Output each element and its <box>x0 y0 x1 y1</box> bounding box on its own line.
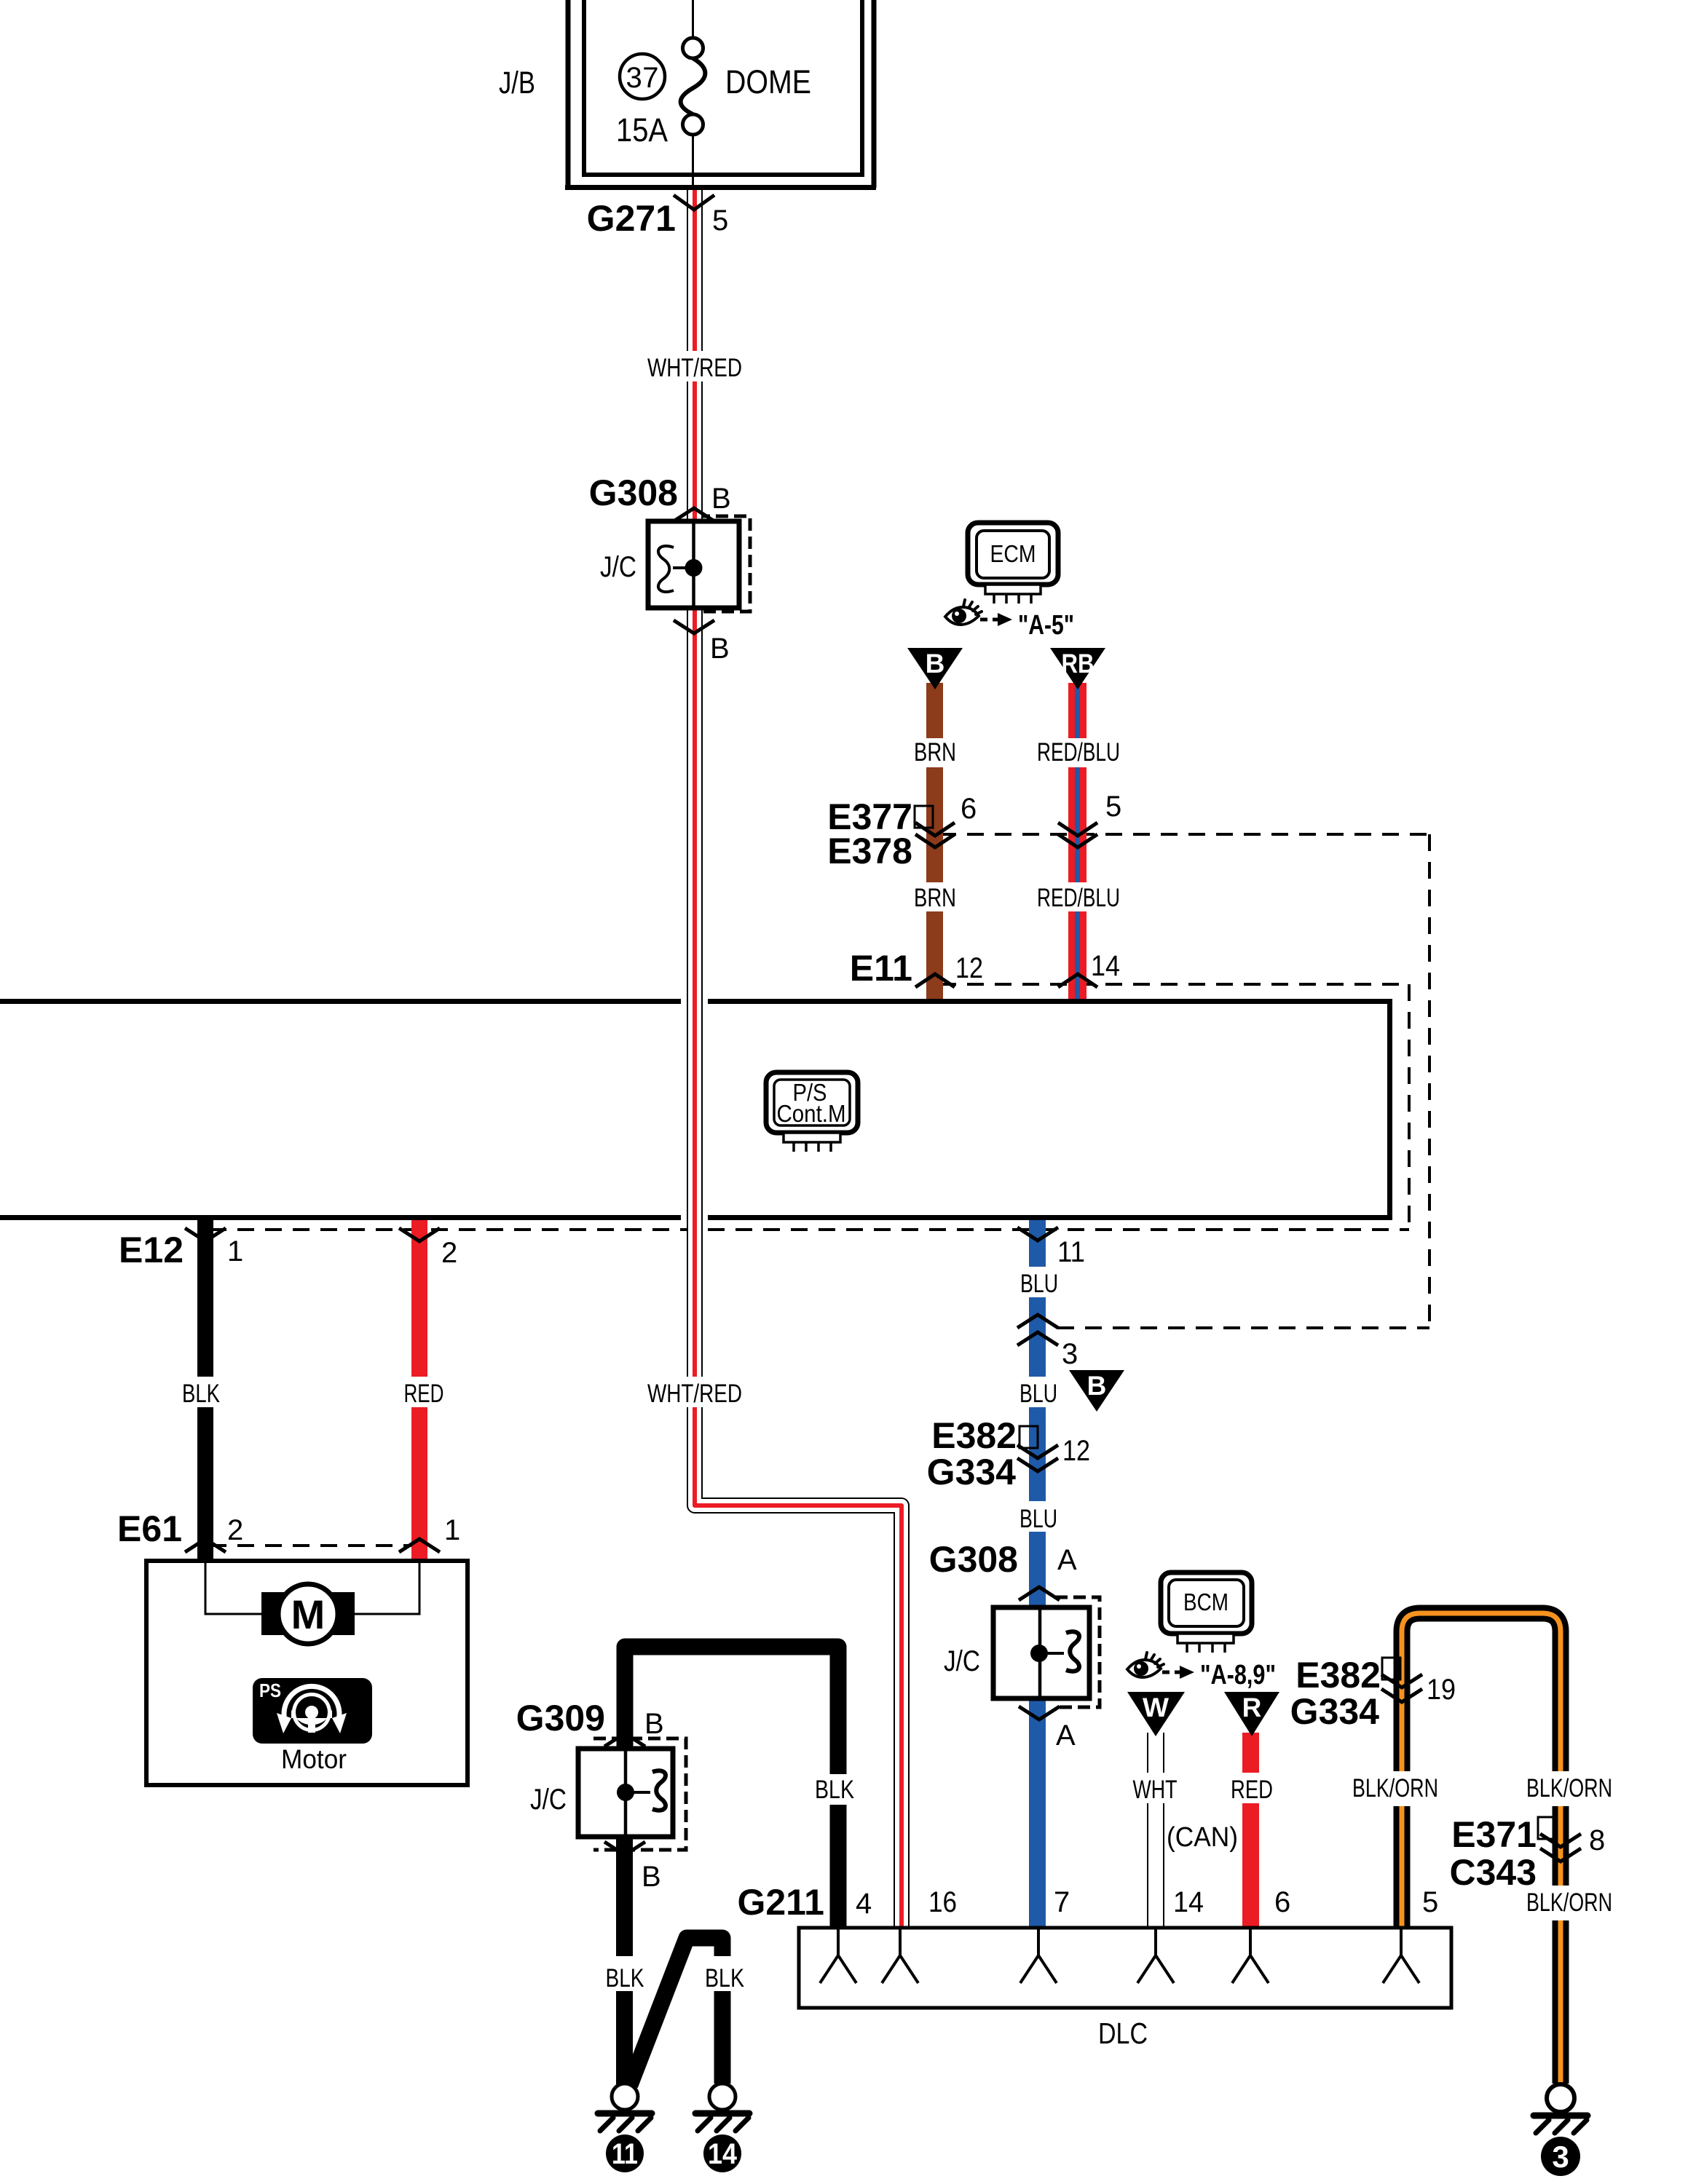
connector E377/E378 pin 5 double chevron <box>1058 823 1097 847</box>
svg-text:14: 14 <box>1091 950 1120 982</box>
svg-text:3: 3 <box>1062 1338 1078 1370</box>
svg-text:J/C: J/C <box>944 1645 980 1677</box>
svg-text:WHT/RED: WHT/RED <box>647 1380 742 1408</box>
svg-text:G334: G334 <box>1290 1691 1380 1732</box>
svg-text:2: 2 <box>441 1237 457 1269</box>
svg-text:16: 16 <box>928 1886 957 1918</box>
svg-text:E11: E11 <box>850 948 912 989</box>
connector G309 pin B chevron (top) <box>604 1733 645 1746</box>
svg-text:G308: G308 <box>589 472 678 513</box>
J/C G308 (B) <box>600 521 739 608</box>
svg-text:11: 11 <box>612 2138 638 2170</box>
svg-text:B: B <box>710 633 730 665</box>
svg-text:"A-5": "A-5" <box>1018 610 1074 641</box>
svg-text:7: 7 <box>1054 1886 1070 1918</box>
svg-text:G308: G308 <box>929 1539 1018 1580</box>
svg-text:14: 14 <box>708 2138 738 2170</box>
J/B outer box <box>565 0 876 188</box>
svg-text:12: 12 <box>955 952 983 984</box>
wire BLK/ORN (DLC pin5 to ground 3, inverted U) <box>1402 1613 1561 2084</box>
svg-text:G309: G309 <box>516 1698 605 1738</box>
svg-text:BLU: BLU <box>1019 1380 1057 1408</box>
ground 11 <box>598 2084 652 2172</box>
svg-text:2: 2 <box>227 1514 243 1546</box>
dashed line E382/G334-3 <box>1057 1326 1429 1329</box>
dashed box of J/C G308-A <box>1055 1597 1100 1707</box>
svg-text:B: B <box>644 1708 664 1740</box>
connector E12 pin 1 chevron <box>185 1228 226 1241</box>
svg-text:G211: G211 <box>737 1882 824 1923</box>
svg-text:RED: RED <box>1231 1776 1273 1804</box>
svg-text:RED/BLU: RED/BLU <box>1037 738 1120 767</box>
svg-text:12: 12 <box>1062 1435 1090 1467</box>
page-ref box E382 (BLU) <box>1019 1426 1038 1448</box>
svg-text:8: 8 <box>1589 1824 1605 1856</box>
svg-text:A: A <box>1057 1544 1077 1576</box>
wire RED (R triangle to DLC pin6) <box>1242 1733 1259 1928</box>
svg-text:BLK/ORN: BLK/ORN <box>1526 1888 1612 1917</box>
svg-text:19: 19 <box>1427 1674 1456 1706</box>
triangle W (WHT) <box>1127 1692 1185 1736</box>
svg-text:G271: G271 <box>587 198 676 239</box>
dashed box of J/C G309 <box>593 1738 686 1850</box>
PS steering icon <box>253 1678 372 1744</box>
ground 3 <box>1534 2084 1588 2176</box>
svg-text:B: B <box>1087 1371 1107 1401</box>
connector G308 pin A chevron (top) <box>1019 1587 1060 1600</box>
connector G308 pin B chevron (bottom) <box>674 620 714 633</box>
dashed box of J/C G308 <box>698 516 750 612</box>
svg-text:G334: G334 <box>927 1452 1017 1492</box>
page-ref box E371 <box>1538 1817 1556 1839</box>
svg-text:J/B: J/B <box>499 66 535 100</box>
svg-text:A: A <box>1056 1720 1076 1752</box>
svg-text:15A: 15A <box>616 111 668 149</box>
svg-text:BLK: BLK <box>705 1964 744 1993</box>
J/C G308 (A) <box>944 1607 1089 1698</box>
connector E382/G334 pin 3 double chevron <box>1017 1315 1058 1345</box>
svg-text:(CAN): (CAN) <box>1167 1822 1238 1853</box>
svg-text:DLC: DLC <box>1098 2017 1148 2050</box>
svg-text:Motor: Motor <box>281 1744 347 1774</box>
svg-text:BLU: BLU <box>1020 1270 1058 1298</box>
connector E371/C343 pin 8 double chevron <box>1540 1834 1581 1861</box>
page-ref box E382 (BLK/ORN) <box>1382 1658 1400 1679</box>
svg-text:E382: E382 <box>1295 1655 1381 1696</box>
svg-text:J/C: J/C <box>600 551 636 583</box>
triangle B (BLU) <box>1069 1370 1124 1412</box>
DLC pins <box>820 1929 1419 1983</box>
connector E382/G334 pin 19 double chevron <box>1381 1674 1422 1702</box>
wire RED/BLU <box>1068 683 1086 1002</box>
svg-text:BLK: BLK <box>182 1380 220 1408</box>
svg-text:B: B <box>642 1861 661 1893</box>
dashed line E377/E378 <box>939 833 1429 836</box>
svg-text:1: 1 <box>444 1514 460 1546</box>
svg-text:ECM: ECM <box>990 540 1036 567</box>
wire BLK (G309 J/C to ground 11) <box>616 1837 633 2084</box>
svg-text:BLU: BLU <box>1019 1505 1057 1533</box>
svg-text:BRN: BRN <box>914 738 956 767</box>
svg-text:E378: E378 <box>827 831 912 871</box>
dashed vertical inner <box>1408 984 1411 1230</box>
svg-text:14: 14 <box>1173 1886 1204 1918</box>
eye to "A-8,9" <box>1127 1653 1164 1677</box>
svg-text:1: 1 <box>227 1235 243 1267</box>
page-ref box E377 <box>915 806 933 828</box>
wire BLK G309 to G211/DLC (inverted U) <box>625 1647 838 1928</box>
svg-text:3: 3 <box>1552 2140 1569 2174</box>
connector E61 pin 1 chevron <box>399 1539 440 1552</box>
svg-text:6: 6 <box>1274 1886 1290 1918</box>
triangle RB (RED/BLU) <box>1050 648 1105 689</box>
svg-text:E12: E12 <box>119 1230 184 1270</box>
triangle R (RED) <box>1224 1692 1279 1736</box>
svg-text:11: 11 <box>1057 1236 1085 1268</box>
wire WHT/RED (fuse to DLC pin 16) <box>695 187 902 1928</box>
P/S Cont.M icon <box>766 1072 858 1152</box>
svg-text:4: 4 <box>856 1888 872 1920</box>
svg-text:DOME: DOME <box>725 63 811 100</box>
connector P/S pin 11 chevron <box>1017 1227 1058 1241</box>
svg-text:PS: PS <box>259 1679 281 1701</box>
svg-text:37: 37 <box>626 62 659 94</box>
fuse 37 15A DOME <box>681 0 706 189</box>
motor internal wires <box>205 1563 263 1614</box>
connector G308 pin A chevron (bottom) <box>1019 1706 1060 1720</box>
svg-text:E61: E61 <box>117 1508 182 1549</box>
svg-text:B: B <box>926 649 945 678</box>
svg-text:BLK: BLK <box>606 1964 644 1993</box>
wire BRN <box>926 683 943 1002</box>
svg-text:WHT: WHT <box>1133 1776 1178 1804</box>
J/C G309 <box>530 1749 673 1837</box>
svg-text:6: 6 <box>961 793 977 825</box>
J/B inner box <box>582 0 864 175</box>
svg-text:WHT/RED: WHT/RED <box>647 354 742 382</box>
dashed line E11 <box>939 983 1409 986</box>
svg-text:RED: RED <box>404 1380 444 1408</box>
svg-text:M: M <box>291 1591 326 1637</box>
connector G271 pin 5 chevron <box>674 195 714 210</box>
svg-text:J/C: J/C <box>530 1784 567 1816</box>
wire BLK (ground 11 to ground 14) <box>630 1938 722 2085</box>
dashed vertical outer <box>1428 834 1431 1328</box>
connector G308 pin B chevron (top) <box>674 508 714 521</box>
svg-text:Cont.M: Cont.M <box>777 1100 846 1127</box>
svg-text:E382: E382 <box>931 1415 1017 1456</box>
motor M symbol <box>261 1592 295 1635</box>
triangle B (BRN) <box>907 648 963 689</box>
fuse number circle 37 <box>620 54 665 99</box>
P/S Cont.M box edges <box>0 999 1392 1220</box>
wire BLK (E12 pin1 to motor) <box>197 1220 213 1562</box>
connector E382/G334 pin 12 double chevron <box>1017 1445 1058 1471</box>
ground 14 <box>695 2084 749 2172</box>
svg-text:5: 5 <box>712 205 728 237</box>
wire WHT (CAN, W triangle to DLC pin14) <box>1147 1733 1164 1928</box>
svg-text:C343: C343 <box>1449 1852 1537 1893</box>
svg-text:5: 5 <box>1422 1886 1438 1918</box>
svg-text:RB: RB <box>1062 649 1095 678</box>
eye to "A-5" <box>945 600 982 625</box>
connector G309 pin B chevron (bottom) <box>604 1842 645 1855</box>
svg-text:RED/BLU: RED/BLU <box>1037 884 1120 912</box>
dashed line E61 <box>210 1544 415 1547</box>
connector E61 pin 2 chevron <box>185 1539 226 1552</box>
connector E11 pin 14 chevron <box>1058 974 1097 987</box>
connector E377/E378 pin 6 double chevron <box>915 823 955 847</box>
connector E12 pin 2 chevron <box>399 1228 440 1241</box>
svg-text:BRN: BRN <box>914 884 956 912</box>
svg-text:R: R <box>1242 1693 1262 1722</box>
svg-text:BLK/ORN: BLK/ORN <box>1352 1774 1438 1803</box>
dashed line E12 <box>210 1228 1409 1231</box>
svg-text:BLK: BLK <box>815 1776 854 1804</box>
svg-text:W: W <box>1143 1693 1169 1722</box>
svg-text:E371: E371 <box>1451 1814 1537 1855</box>
svg-text:B: B <box>711 483 731 515</box>
wire BLU (P/S Cont.M pin11 to DLC pin7) <box>1029 1220 1046 1928</box>
wire RED (E12 pin2 to motor) <box>411 1220 427 1562</box>
svg-text:BLK/ORN: BLK/ORN <box>1526 1774 1612 1803</box>
connector E11 pin 12 chevron <box>915 974 955 987</box>
svg-text:"A-8,9": "A-8,9" <box>1200 1660 1276 1690</box>
svg-text:BCM: BCM <box>1183 1588 1228 1615</box>
svg-text:5: 5 <box>1105 791 1121 823</box>
